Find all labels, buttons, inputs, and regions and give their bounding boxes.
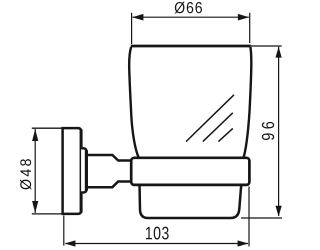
- glass rim top line: [131, 45, 251, 48]
- dimension Ø48 label: [20, 159, 31, 189]
- wall plate front face line: [80, 130, 83, 213]
- dimension Ø66 line: [133, 16, 249, 18]
- dimension 103 line: [66, 243, 249, 245]
- glass shine line long: [186, 95, 234, 142]
- glass tumbler (front view): [129, 47, 251, 158]
- glass shine line medium: [203, 113, 233, 142]
- dimension Ø48 arrow up: [32, 129, 38, 141]
- dimension 96 arrow down: [276, 206, 282, 217]
- bracket collar: [81, 148, 86, 192]
- dimension Ø66 label: [175, 2, 202, 14]
- dimension Ø66 arrow right: [238, 14, 249, 21]
- wall plate (side view): [63, 128, 82, 214]
- dimension Ø48 extension line bottom: [32, 213, 67, 215]
- dimension 103 arrow left: [65, 240, 76, 246]
- dimension 96 arrow up: [276, 47, 282, 58]
- dimension Ø48 line: [34, 129, 36, 213]
- dimension 103 extension line right: [248, 187, 250, 247]
- dimension Ø66 arrow left: [132, 14, 143, 21]
- glass shine line short: [218, 128, 232, 141]
- dimension Ø66 extension line left: [131, 13, 133, 44]
- bracket collar front face line: [85, 150, 88, 190]
- dimension 96 extension line bottom (collinear with holder bottom): [241, 217, 282, 219]
- dimension 103 extension line left: [63, 216, 65, 246]
- dimension 96 label: [262, 122, 274, 140]
- dimension Ø48 extension line top: [32, 127, 62, 129]
- holder glass outer wall: [140, 184, 242, 218]
- holder ring: [131, 158, 249, 185]
- bracket neck top profile: [87, 155, 132, 161]
- dimension 96 line: [278, 47, 280, 216]
- dimension Ø48 arrow down: [32, 201, 38, 213]
- dimension Ø66 extension line right: [249, 13, 251, 43]
- dimension 103 label: [146, 227, 169, 240]
- dimension 96 extension line top: [251, 45, 282, 47]
- bracket neck bottom profile: [87, 182, 132, 188]
- dimension 103 arrow right: [238, 240, 249, 246]
